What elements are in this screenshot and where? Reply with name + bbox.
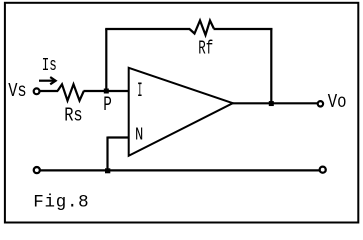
wire right vertical down to output node bbox=[270, 28, 272, 104]
junction dot on ground rail bbox=[105, 168, 110, 173]
resistor Rs bbox=[58, 84, 84, 100]
current arrow Is bbox=[39, 77, 56, 84]
svg-text:Vo: Vo bbox=[328, 91, 347, 113]
terminal Vs bbox=[34, 88, 40, 94]
terminal bottom right bbox=[320, 167, 326, 173]
wire top right segment bbox=[214, 28, 273, 30]
svg-text:Vs: Vs bbox=[8, 80, 27, 102]
svg-text:Rs: Rs bbox=[64, 104, 83, 126]
resistor Rf bbox=[190, 21, 214, 36]
output node junction dot bbox=[269, 101, 274, 106]
svg-text:Fig.8: Fig.8 bbox=[33, 192, 88, 212]
svg-text:N: N bbox=[135, 126, 143, 146]
wire op-amp output to Vo bbox=[233, 102, 318, 104]
svg-text:P: P bbox=[103, 94, 112, 117]
terminal Vo bbox=[318, 101, 323, 106]
wire Vs to Rs bbox=[40, 90, 58, 92]
terminal bottom left bbox=[34, 167, 40, 173]
wire Rs to op-amp input I bbox=[84, 90, 130, 92]
svg-text:Is: Is bbox=[42, 56, 57, 76]
wire ground rail bbox=[41, 169, 320, 171]
wire top left segment bbox=[105, 28, 190, 30]
svg-text:Rf: Rf bbox=[198, 37, 213, 59]
op-amp U1 bbox=[129, 68, 233, 156]
wire op-amp input N bbox=[108, 136, 130, 138]
wire N down to ground rail bbox=[106, 137, 108, 171]
node P junction dot bbox=[104, 89, 109, 94]
wire P up to feedback bbox=[105, 29, 107, 92]
svg-text:I: I bbox=[137, 80, 142, 103]
